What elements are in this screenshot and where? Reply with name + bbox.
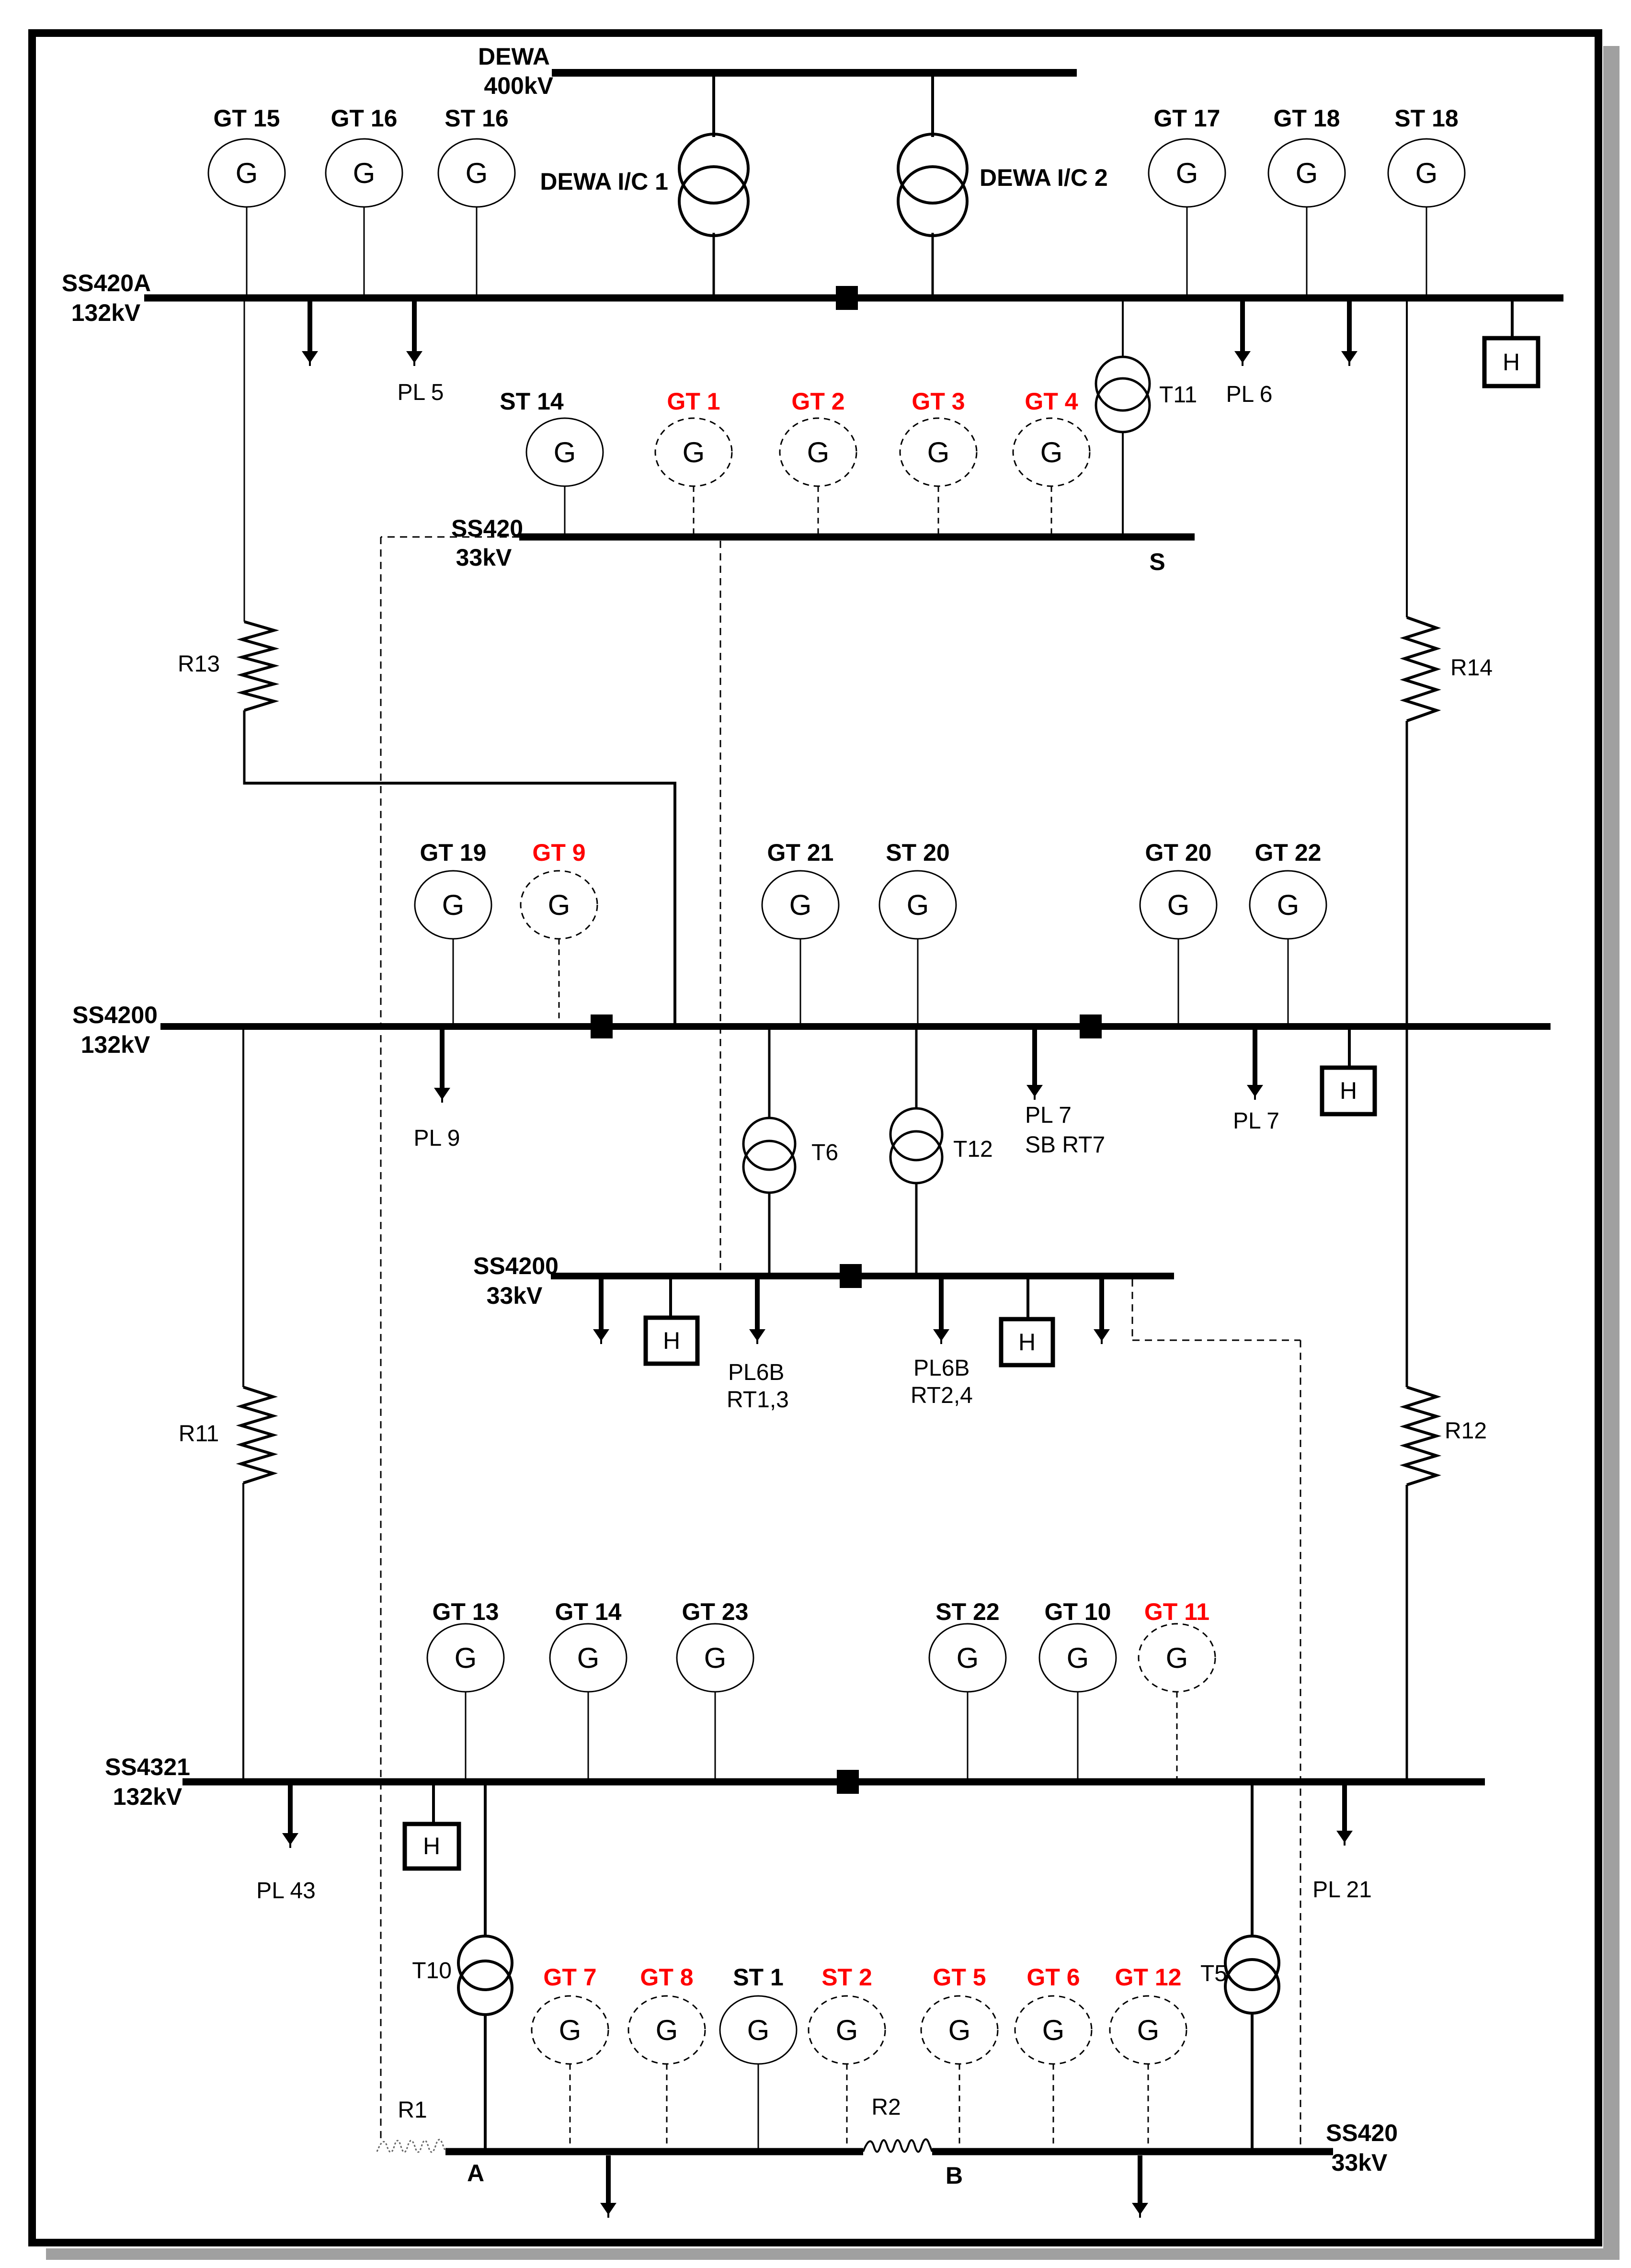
load arrow PL 21: [1342, 1785, 1347, 1832]
bus SS4321 132kV: [182, 1778, 1485, 1786]
frame drop shadow: [1603, 46, 1620, 2259]
bus section junction 1 on SS4200: [591, 1014, 613, 1038]
wire H2 stub: [1348, 1030, 1351, 1068]
svg-text:G: G: [1067, 1642, 1089, 1674]
bus DEWA 400kV: [552, 69, 1077, 77]
wire GT 6 stem: [1053, 2064, 1054, 2150]
svg-text:G: G: [577, 1642, 600, 1674]
wire T6 HV: [768, 1030, 771, 1119]
svg-text:G: G: [559, 2014, 582, 2046]
wire GT 8 stem: [666, 2064, 668, 2150]
svg-text:PL 43: PL 43: [256, 1878, 316, 1903]
transformer T6: [743, 1118, 795, 1170]
svg-text:G: G: [807, 436, 830, 468]
bus SS420A 132kV: [144, 295, 1563, 302]
bus section junction on SS4321: [837, 1770, 859, 1794]
svg-text:GT 17: GT 17: [1154, 105, 1220, 132]
wire GT 21 stem: [800, 939, 801, 1024]
svg-text:R13: R13: [178, 651, 220, 677]
svg-text:G: G: [656, 2014, 678, 2046]
wire R11 to SS4321: [242, 1483, 244, 1779]
wire GT 15 stem: [246, 207, 248, 296]
transformer T12: [890, 1108, 942, 1160]
svg-text:G: G: [704, 1642, 727, 1674]
svg-text:GT 6: GT 6: [1027, 1964, 1080, 1991]
wire ST 2 stem: [846, 2064, 848, 2150]
svg-text:RT1,3: RT1,3: [727, 1387, 789, 1413]
svg-text:R1: R1: [398, 2097, 427, 2123]
svg-text:PL 5: PL 5: [398, 380, 444, 405]
svg-text:132kV: 132kV: [113, 1783, 182, 1810]
svg-text:H: H: [663, 1327, 680, 1354]
svg-text:R11: R11: [179, 1421, 219, 1447]
bus SS420 33kV section A: [445, 2148, 863, 2155]
svg-text:400kV: 400kV: [484, 72, 553, 99]
protection box H1: [1484, 338, 1538, 386]
svg-text:RT2,4: RT2,4: [911, 1383, 973, 1408]
wire GT 19 stem: [453, 939, 454, 1024]
wire GT 1 stem: [693, 486, 695, 535]
svg-text:R2: R2: [871, 2095, 901, 2120]
svg-text:GT 20: GT 20: [1145, 839, 1212, 866]
load arrow PL 7 (right): [1253, 1030, 1257, 1086]
dashed tie: S bus to left riser: [381, 536, 519, 538]
reactor R1 (dashed): [377, 2140, 445, 2152]
svg-text:GT 8: GT 8: [640, 1964, 693, 1991]
svg-text:GT 19: GT 19: [420, 839, 487, 866]
wire ST 20 stem: [917, 939, 919, 1024]
transformer T5: [1225, 1936, 1279, 1990]
svg-text:GT 11: GT 11: [1144, 1598, 1209, 1625]
svg-text:R14: R14: [1450, 655, 1493, 681]
wire H4 stub: [1027, 1279, 1029, 1319]
wire ST 18 stem: [1426, 207, 1427, 296]
wire H5 stub: [432, 1785, 435, 1824]
protection box H5: [405, 1824, 459, 1869]
dashed tie: SS4200 33kV to bus B (down): [1132, 1279, 1133, 1340]
wire T10 LV: [484, 2014, 487, 2150]
protection box H4: [1001, 1319, 1053, 1365]
wire T10 HV: [484, 1785, 487, 1937]
load arrow PL6B RT1,3: [755, 1279, 760, 1330]
svg-text:G: G: [548, 889, 570, 921]
svg-text:G: G: [466, 157, 488, 189]
svg-text:GT 3: GT 3: [912, 388, 965, 415]
protection box H3: [646, 1318, 697, 1364]
bus SS4200 132kV: [160, 1023, 1551, 1030]
wire SS420A to R13: [244, 301, 245, 622]
svg-text:SS420: SS420: [451, 515, 523, 542]
wire T12 LV: [915, 1182, 918, 1274]
svg-text:T12: T12: [953, 1137, 993, 1162]
wire GT 16 stem: [364, 207, 365, 296]
svg-text:PL 6: PL 6: [1226, 382, 1273, 407]
load arrow PL 6: [1240, 301, 1245, 352]
reactor R14: [1404, 617, 1437, 721]
load arrow 2 below SS4200 33kV: [1099, 1279, 1104, 1330]
wire GT 22 stem: [1288, 939, 1289, 1024]
load arrow PL 9: [440, 1030, 445, 1089]
svg-text:PL 9: PL 9: [414, 1126, 460, 1151]
wire GT 2 stem: [818, 486, 819, 535]
svg-text:G: G: [442, 889, 465, 921]
svg-text:G: G: [554, 436, 576, 468]
svg-text:S: S: [1149, 548, 1165, 575]
wire GT 10 stem: [1077, 1692, 1079, 1779]
wire T5 LV: [1251, 2012, 1254, 2150]
svg-text:SS4321: SS4321: [105, 1754, 190, 1780]
svg-text:G: G: [907, 889, 929, 921]
wire GT 13 stem: [465, 1692, 467, 1779]
svg-text:GT 2: GT 2: [791, 388, 844, 415]
svg-text:PL6B: PL6B: [728, 1360, 784, 1385]
svg-text:DEWA: DEWA: [478, 43, 550, 70]
svg-text:33kV: 33kV: [456, 544, 512, 571]
dashed tie: down to bus B: [1300, 1340, 1301, 2149]
svg-text:T5: T5: [1200, 1961, 1227, 1986]
load arrow (unlabeled) on SS420A: [308, 301, 312, 352]
svg-text:DEWA I/C 2: DEWA I/C 2: [980, 164, 1108, 191]
wire GT 18 stem: [1306, 207, 1308, 296]
svg-text:ST 16: ST 16: [445, 105, 508, 132]
wire DEWA I/C 2 LV: [932, 233, 934, 296]
svg-text:GT 23: GT 23: [682, 1598, 749, 1625]
transformer T10: [458, 1936, 512, 1990]
wire T11 HV: [1122, 301, 1124, 358]
svg-text:G: G: [948, 2014, 971, 2046]
wire GT 5 stem: [959, 2064, 960, 2150]
svg-text:GT 14: GT 14: [555, 1598, 622, 1625]
svg-text:PL 7: PL 7: [1025, 1103, 1072, 1128]
svg-text:GT 7: GT 7: [543, 1964, 596, 1991]
wire R11 riser: [242, 1030, 244, 1387]
svg-text:PL6B: PL6B: [913, 1356, 969, 1381]
wire T5 HV: [1251, 1785, 1254, 1937]
wire R13 to jog: [243, 710, 246, 785]
load arrow (unlabeled) right on SS420A: [1347, 301, 1352, 352]
svg-text:G: G: [1176, 157, 1198, 189]
svg-text:G: G: [1042, 2014, 1065, 2046]
bus section junction on SS420A: [836, 286, 858, 310]
reactor R12: [1404, 1387, 1437, 1485]
svg-text:GT 4: GT 4: [1025, 388, 1078, 415]
wire R14 to SS4200 and on to R12: [1406, 721, 1408, 1387]
transformer T11: [1096, 357, 1150, 410]
bus section junction on SS4200 33kV: [840, 1264, 862, 1288]
svg-text:H: H: [1340, 1077, 1357, 1104]
wire GT 23 stem: [715, 1692, 716, 1779]
load arrow PL 7 / SB RT7: [1032, 1030, 1037, 1086]
wire GT 4 stem: [1051, 486, 1052, 535]
svg-text:ST 14: ST 14: [500, 388, 564, 415]
wire jog horizontal: [243, 782, 676, 785]
svg-text:G: G: [455, 1642, 477, 1674]
wire ST 22 stem: [967, 1692, 969, 1779]
wire GT 3 stem: [938, 486, 939, 535]
svg-text:G: G: [353, 157, 376, 189]
load arrow 1 below SS4200 33kV: [599, 1279, 604, 1330]
svg-text:A: A: [467, 2160, 484, 2187]
wire GT 9 stem: [559, 939, 560, 1024]
svg-text:ST 20: ST 20: [886, 839, 949, 866]
dashed tie: S bus to SS4200 33kV: [720, 541, 721, 1273]
wire SS420A to R14: [1406, 301, 1408, 617]
svg-text:GT 22: GT 22: [1255, 839, 1322, 866]
wire GT 20 stem: [1178, 939, 1179, 1024]
svg-text:ST 1: ST 1: [733, 1964, 784, 1991]
svg-text:G: G: [236, 157, 258, 189]
bus SS420 33kV (S): [519, 534, 1195, 541]
svg-text:T11: T11: [1159, 382, 1197, 408]
svg-text:GT 18: GT 18: [1274, 105, 1340, 132]
wire ST 1 stem: [758, 2064, 759, 2150]
svg-text:SS4200: SS4200: [473, 1253, 559, 1279]
reactor R2: [863, 2139, 932, 2152]
load arrow PL 5: [412, 301, 417, 352]
svg-text:PL 21: PL 21: [1312, 1877, 1372, 1903]
svg-text:GT 13: GT 13: [433, 1598, 499, 1625]
svg-text:GT 1: GT 1: [667, 388, 720, 415]
bus section junction 2 on SS4200: [1080, 1014, 1102, 1038]
wire DEWA I/C 1 LV: [713, 233, 715, 296]
wire GT 12 stem: [1148, 2064, 1149, 2150]
dashed tie: left riser down to R1: [380, 537, 382, 2140]
svg-text:PL 7: PL 7: [1233, 1108, 1279, 1134]
wire T6 LV: [768, 1192, 771, 1274]
svg-text:GT 15: GT 15: [214, 105, 280, 132]
svg-text:132kV: 132kV: [81, 1031, 150, 1058]
svg-text:SS420A: SS420A: [62, 270, 151, 296]
wire GT 11 stem: [1176, 1692, 1178, 1779]
svg-text:SB RT7: SB RT7: [1025, 1132, 1105, 1158]
transformer DEWA I/C 1: [679, 134, 748, 203]
wire DEWA I/C 1 HV: [712, 73, 715, 137]
transformer DEWA I/C 2: [898, 134, 967, 203]
dashed tie: horizontal segment: [1132, 1340, 1300, 1341]
bus SS4200 33kV: [551, 1273, 1174, 1279]
svg-text:G: G: [1166, 1642, 1188, 1674]
svg-text:H: H: [1018, 1329, 1036, 1356]
svg-text:GT 9: GT 9: [532, 839, 585, 866]
svg-text:T10: T10: [412, 1958, 452, 1983]
wire ST 16 stem: [476, 207, 478, 296]
svg-text:G: G: [747, 2014, 770, 2046]
svg-text:GT 5: GT 5: [933, 1964, 986, 1991]
reactor R13: [242, 622, 274, 710]
wire DEWA I/C 2 HV: [931, 73, 934, 137]
reactor R11: [241, 1387, 273, 1483]
svg-text:SS4200: SS4200: [72, 1002, 158, 1028]
svg-text:G: G: [927, 436, 950, 468]
wire T11 LV: [1122, 431, 1124, 535]
wire R12 to SS4321: [1406, 1485, 1408, 1779]
svg-text:H: H: [1503, 349, 1520, 376]
svg-text:ST 18: ST 18: [1394, 105, 1458, 132]
wire GT 7 stem: [570, 2064, 571, 2150]
load arrow below bus B: [1138, 2155, 1142, 2204]
svg-text:G: G: [1296, 157, 1318, 189]
svg-text:G: G: [1415, 157, 1438, 189]
svg-text:B: B: [946, 2162, 963, 2189]
load arrow PL6B RT2,4: [939, 1279, 944, 1330]
load arrow below bus A: [606, 2155, 611, 2204]
svg-text:T6: T6: [811, 1140, 838, 1165]
load arrow PL 43: [288, 1785, 293, 1834]
svg-text:GT 12: GT 12: [1115, 1964, 1182, 1991]
wire ST 14 stem: [564, 486, 566, 535]
svg-text:ST 2: ST 2: [821, 1964, 872, 1991]
svg-text:G: G: [1137, 2014, 1160, 2046]
bus SS420 33kV section B: [932, 2148, 1333, 2155]
wire jog down to SS4200: [673, 783, 676, 1025]
protection box H2: [1322, 1068, 1375, 1114]
wire H3 stub: [669, 1279, 672, 1318]
svg-text:G: G: [1277, 889, 1300, 921]
wire H1 stub: [1511, 301, 1514, 338]
svg-text:GT 16: GT 16: [331, 105, 398, 132]
wire GT 14 stem: [588, 1692, 589, 1779]
svg-text:DEWA I/C 1: DEWA I/C 1: [540, 168, 668, 195]
svg-text:33kV: 33kV: [1332, 2149, 1388, 2176]
svg-text:G: G: [836, 2014, 858, 2046]
svg-text:GT 21: GT 21: [767, 839, 834, 866]
wire T12 HV (from ST 20): [915, 1030, 918, 1109]
svg-text:G: G: [683, 436, 705, 468]
svg-text:SS420: SS420: [1326, 2120, 1398, 2146]
svg-text:ST 22: ST 22: [935, 1598, 999, 1625]
svg-text:G: G: [1040, 436, 1063, 468]
svg-text:G: G: [957, 1642, 979, 1674]
svg-text:H: H: [423, 1833, 440, 1859]
svg-text:GT 10: GT 10: [1045, 1598, 1111, 1625]
wire GT 17 stem: [1186, 207, 1188, 296]
svg-text:G: G: [789, 889, 812, 921]
svg-text:G: G: [1167, 889, 1190, 921]
svg-text:132kV: 132kV: [71, 299, 141, 326]
svg-text:R12: R12: [1445, 1418, 1487, 1444]
svg-text:33kV: 33kV: [487, 1282, 543, 1309]
